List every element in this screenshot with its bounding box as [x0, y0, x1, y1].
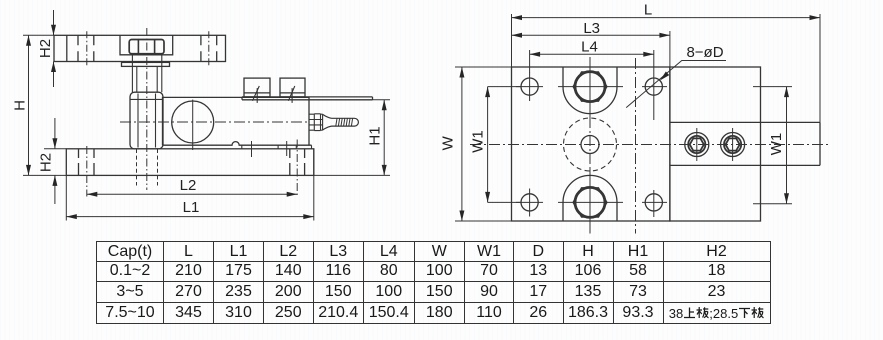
dimension H2 bottom	[54, 118, 56, 204]
cover screw tab 1	[244, 78, 270, 97]
top plate right hole edges	[201, 35, 217, 61]
L1 left extension	[65, 175, 67, 220]
base plate bottom right extension	[314, 174, 390, 176]
bellows cylinder	[130, 92, 163, 149]
cover screw tab 2	[280, 78, 305, 97]
dimension L	[512, 17, 821, 19]
right block	[670, 67, 761, 221]
top plate left hole centerline	[86, 31, 88, 65]
dimension L2	[87, 193, 297, 195]
dimension W1 right	[786, 87, 788, 204]
center dashed circle	[564, 118, 617, 171]
spacer screw tick A	[251, 141, 253, 157]
stub thread lines	[336, 118, 353, 126]
W top extension	[455, 66, 512, 68]
dimension H extension bottom	[23, 174, 66, 176]
block screw 1	[685, 133, 709, 157]
bellows inner lines	[138, 94, 156, 148]
svg-text:L1: L1	[183, 199, 200, 216]
svg-text:H1: H1	[367, 126, 384, 145]
svg-text:W1: W1	[768, 133, 785, 156]
nut pocket	[120, 35, 173, 55]
H1 top extension	[373, 99, 391, 101]
dimension L3	[512, 34, 670, 36]
svg-text:L3: L3	[583, 20, 600, 37]
W1 right leaders	[753, 87, 792, 204]
svg-text:W1: W1	[469, 130, 486, 153]
svg-text:H2: H2	[37, 39, 54, 58]
top plate left end line	[66, 35, 68, 61]
svg-text:H2: H2	[37, 153, 54, 172]
top hex pocket	[563, 67, 617, 114]
base plate right hole edges	[290, 149, 305, 176]
tab 1 center tick	[256, 88, 258, 103]
svg-text:W: W	[439, 135, 456, 150]
auxiliary vertical centerline	[635, 58, 637, 234]
tab 2 slash	[288, 86, 294, 101]
tab 1 base line	[244, 92, 270, 94]
circle vertical centerline	[192, 100, 194, 150]
hex nut facets	[138, 40, 154, 53]
svg-text:8−øD: 8−øD	[686, 44, 723, 61]
dimension H2 top	[53, 10, 55, 87]
top hex bolt	[575, 72, 605, 102]
dimension H1	[383, 100, 385, 176]
top hex ticks	[558, 86, 623, 88]
rod centerline	[146, 28, 148, 190]
svg-text:H: H	[11, 100, 28, 111]
L left extension	[511, 14, 513, 67]
bottom-right hole	[645, 194, 662, 211]
body bottom edge with bump	[163, 142, 312, 146]
vertical centerline	[589, 57, 591, 234]
main plate	[512, 67, 670, 221]
hidden thread hole below bellows	[137, 149, 158, 186]
top plate left hole edges	[78, 35, 94, 61]
bottom hex pocket	[563, 175, 617, 221]
horizontal centerline	[470, 144, 828, 146]
cable gland stub	[332, 118, 355, 126]
tab 2 center tick	[291, 88, 293, 103]
bellows cap line	[131, 98, 163, 100]
tab 1 slash	[253, 86, 260, 101]
dimension H extension top	[23, 34, 54, 36]
L1 right extension	[313, 149, 315, 221]
W bottom extension	[455, 220, 512, 222]
cable gland taper	[323, 114, 332, 130]
dimension W1 left	[487, 87, 489, 203]
spacer screw tick B	[286, 141, 288, 156]
base plate left hole edges	[79, 149, 95, 176]
load cell body	[163, 97, 310, 145]
threaded rod	[132, 55, 161, 92]
base plate left hole centerline	[86, 146, 88, 197]
body strip seen from top	[670, 122, 820, 165]
W1 left leaders	[488, 87, 521, 203]
hex nut	[129, 40, 164, 54]
block screw 2	[721, 133, 745, 157]
L right extension	[819, 14, 821, 122]
cable gland hex section	[309, 114, 323, 131]
base plate right hole centerline	[296, 140, 298, 197]
bottom-left hole	[521, 194, 538, 211]
spacer ticks under body	[242, 145, 312, 149]
bottom hex ticks	[558, 201, 623, 203]
svg-text:L4: L4	[581, 39, 598, 56]
L3 right extension	[669, 31, 671, 67]
body horizontal centerline	[120, 121, 307, 123]
top plate right hole centerline	[208, 31, 210, 65]
top-left hole	[521, 78, 538, 95]
tab 2 base line	[280, 92, 305, 94]
bottom hex bolt	[575, 187, 605, 217]
body circle	[172, 101, 214, 143]
L4 left extension	[529, 50, 531, 73]
base plate top-left extension	[44, 148, 66, 150]
washer under plate	[122, 62, 170, 66]
8-oD leader	[626, 61, 726, 108]
top lip plate	[242, 97, 373, 100]
dimension H line	[28, 35, 30, 175]
top-right hole	[645, 78, 662, 95]
svg-text:L2: L2	[180, 177, 197, 194]
center hole	[581, 136, 599, 154]
dimension L4	[530, 53, 654, 55]
stub end cap	[355, 118, 359, 126]
dimension L1	[66, 216, 313, 218]
base plate	[66, 149, 313, 176]
top plate	[54, 35, 226, 61]
dimension W	[461, 67, 463, 221]
svg-text:L: L	[644, 2, 652, 19]
